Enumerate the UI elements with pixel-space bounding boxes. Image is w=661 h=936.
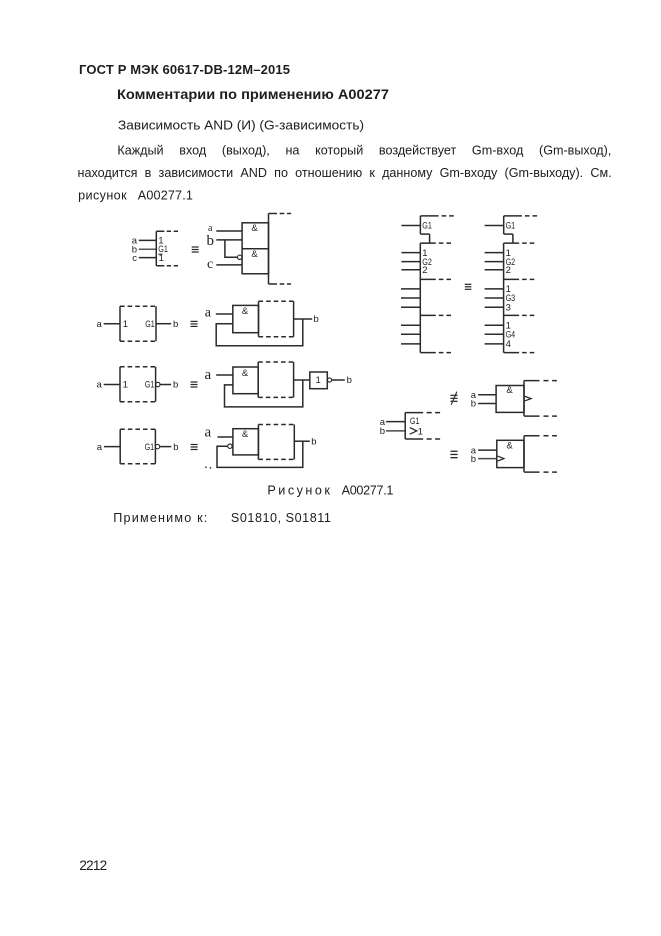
- label c serif (row1 right): [207, 257, 213, 272]
- svg-text:&: &: [242, 306, 249, 317]
- svg-text:b: b: [173, 319, 178, 330]
- wire output b (row3 right): [332, 379, 345, 381]
- pin label G1 (row2 left): [145, 319, 155, 330]
- svg-text:b: b: [173, 442, 178, 453]
- label ampersand (row4 right): [242, 429, 249, 440]
- wire input c (row1 left): [139, 257, 157, 259]
- feedback wire (row2 right): [216, 319, 303, 346]
- pin label 1 (row2 left): [123, 319, 128, 330]
- svg-text:1: 1: [123, 319, 128, 330]
- svg-text:a: a: [97, 319, 103, 330]
- wire input b (row1 left): [139, 248, 157, 250]
- group2 labels 1 G3 3 (tall right): [506, 284, 516, 313]
- label 1 inverter (row3 right): [316, 375, 321, 386]
- label b serif (row1 right): [207, 233, 215, 249]
- AND gate box (br bottom): [497, 440, 524, 467]
- box outline (row3 left): [120, 367, 156, 402]
- svg-text:1: 1: [123, 380, 128, 391]
- svg-text:G1: G1: [422, 221, 432, 232]
- pin label G1 (br left): [410, 416, 420, 427]
- AND gate box (row2 right): [233, 305, 259, 332]
- svg-text:b: b: [207, 233, 215, 249]
- common control block G1 outline (tall left): [420, 216, 455, 243]
- svg-text:&: &: [506, 440, 513, 451]
- equivalence sign (row2): [191, 321, 198, 327]
- group2 wires (tall right): [485, 289, 504, 307]
- negation bubble output (row4 left): [155, 444, 159, 448]
- continuation box dashed (br top): [524, 381, 558, 417]
- svg-text:находится в зависимости AND по: находится в зависимости AND по отношению…: [78, 166, 612, 180]
- AND gate box (row4 right): [233, 429, 259, 455]
- label a (row3 left): [97, 380, 103, 391]
- svg-text:&: &: [251, 223, 258, 234]
- group2 wires (tall left): [401, 289, 420, 307]
- svg-text:b: b: [380, 426, 385, 437]
- svg-text:S01810, S01811: S01810, S01811: [231, 511, 331, 525]
- continuation box dashed (br bottom): [524, 436, 558, 472]
- pin label 1 (row1 left): [158, 236, 163, 247]
- svg-text:Каждый вход (выход), на которы: Каждый вход (выход), на который воздейст…: [117, 143, 611, 157]
- pin label G1 (row4 left): [145, 442, 155, 453]
- svg-text:Комментарии по применению А002: Комментарии по применению А00277: [117, 87, 389, 102]
- wire output b (row2 right): [294, 318, 313, 320]
- svg-text:2212: 2212: [79, 858, 107, 873]
- non-equivalence sign: [450, 392, 457, 405]
- wire output b (row4 left): [160, 446, 172, 448]
- label ampersand top cell (row1 right): [251, 223, 258, 234]
- svg-text:b: b: [173, 380, 178, 391]
- wire b (row1 right): [216, 239, 242, 241]
- group3 wires (tall right): [485, 325, 504, 344]
- label b (br top): [471, 399, 476, 410]
- wire G1 input (tall right): [485, 225, 504, 227]
- label a serif (row1 right): [208, 223, 213, 234]
- wire input a (row3 left): [104, 384, 120, 386]
- label ampersand bottom cell (row1 right): [251, 249, 258, 260]
- equivalence sign (row4): [191, 444, 198, 450]
- label a serif (row4 right): [205, 424, 212, 440]
- label a serif (row3 right): [205, 367, 212, 383]
- group3 labels 1 G4 4 (tall right): [506, 320, 516, 350]
- label a (br top): [471, 390, 477, 401]
- svg-text:3: 3: [506, 302, 511, 313]
- pin label G1 (row3 left): [145, 380, 155, 391]
- svg-text:ГОСТ Р МЭК 60617-DB-12M–2015: ГОСТ Р МЭК 60617-DB-12M–2015: [79, 62, 290, 77]
- continuation box dashed (row4 right): [258, 425, 294, 460]
- negation bubble output (row3 left): [156, 382, 160, 386]
- label ampersand (br bottom): [506, 440, 513, 451]
- wire output b (row3 left): [160, 384, 171, 386]
- svg-text:G1: G1: [145, 319, 155, 330]
- feedback wire into negated input (row4 right): [217, 441, 303, 467]
- label a (row1 left): [132, 236, 138, 247]
- label b (row1 left): [132, 244, 137, 255]
- pin label G1 (row1 left): [158, 244, 168, 255]
- feedback wire (row3 right): [225, 380, 303, 407]
- continuation box dashed (row2 right): [259, 301, 294, 337]
- wire G1 input (tall left): [401, 225, 420, 227]
- wire input b (br bottom): [478, 458, 497, 460]
- svg-text:b: b: [311, 436, 316, 447]
- label a serif (row2 right): [205, 306, 212, 321]
- AND gate box (row3 right): [233, 367, 258, 394]
- wire input b (br top): [478, 403, 496, 405]
- svg-text:G1: G1: [506, 221, 516, 232]
- dynamic output symbol (br top): [525, 396, 531, 400]
- svg-text:1: 1: [316, 375, 321, 386]
- continuation box dashed (row3 right): [258, 362, 293, 397]
- svg-text:1: 1: [418, 426, 423, 437]
- group1 labels 1 G2 2 (tall left): [422, 248, 432, 276]
- AND gate box (br top): [496, 386, 524, 413]
- wire a (row1 right): [216, 230, 242, 232]
- label b (row2 left): [173, 319, 178, 330]
- wire input a (row4 left): [104, 446, 120, 448]
- svg-text:a: a: [205, 424, 212, 440]
- label a (row2 left): [97, 319, 103, 330]
- svg-text:c: c: [132, 253, 137, 264]
- array outline (tall right): [504, 243, 539, 353]
- wire input a (row1 left): [139, 239, 157, 241]
- svg-text:А00277.1: А00277.1: [342, 483, 394, 497]
- svg-text:a: a: [205, 306, 212, 321]
- svg-text:b: b: [471, 399, 476, 410]
- stray dots (row4 right): [205, 466, 211, 468]
- label G1 (tall right): [506, 221, 516, 232]
- pin label 1 after dynamic (br left): [418, 426, 423, 437]
- dynamic input symbol (br bottom): [498, 456, 504, 461]
- label b (br left): [380, 426, 385, 437]
- label ampersand (row2 right): [242, 306, 249, 317]
- label ampersand (br top): [506, 385, 513, 396]
- box outline (row4 left): [120, 429, 155, 464]
- wire c (row1 right): [216, 264, 242, 266]
- svg-text:a: a: [97, 380, 103, 391]
- svg-text:рисунокА00277.1: рисунокА00277.1: [78, 188, 193, 202]
- svg-text:G1: G1: [145, 380, 155, 391]
- svg-text:b: b: [471, 454, 476, 465]
- group1 labels 1 G2 2 (tall right): [506, 248, 516, 276]
- svg-text:G1: G1: [145, 442, 155, 453]
- svg-text:b: b: [314, 314, 319, 325]
- label G1 (tall left): [422, 221, 432, 232]
- wire b branch to negated input (row1 right): [225, 240, 237, 257]
- inverter box 1 (row3 right): [310, 372, 328, 389]
- equivalence sign (row3): [191, 381, 198, 387]
- continuation box dashed (row1 right): [269, 214, 292, 285]
- svg-text:4: 4: [506, 339, 511, 350]
- dynamic input symbol (br left): [410, 428, 417, 435]
- label b (row4 left): [173, 442, 178, 453]
- negation bubble (row1 right): [238, 255, 242, 259]
- box outline U1 common control block (row1 left): [156, 231, 178, 265]
- equivalence sign (br bottom): [450, 451, 457, 459]
- svg-text:Рисунок: Рисунок: [267, 483, 330, 497]
- svg-text:2: 2: [422, 265, 427, 276]
- svg-text:a: a: [97, 442, 103, 453]
- wire to inverter (row3 right): [294, 379, 310, 381]
- svg-text:&: &: [506, 385, 513, 396]
- group3 wires (tall left): [401, 325, 420, 344]
- wire input b (br left): [386, 430, 405, 432]
- box outline (row2 left): [120, 306, 156, 341]
- svg-text:&: &: [242, 429, 249, 440]
- label b (br bottom): [471, 454, 476, 465]
- equivalence sign (row1): [192, 246, 199, 252]
- svg-text:&: &: [251, 249, 258, 260]
- svg-text:c: c: [207, 257, 213, 272]
- AND gate pair outline (row1 right): [242, 223, 268, 274]
- wire input a (row2 left): [104, 323, 120, 325]
- group1 wires (tall left): [401, 253, 420, 270]
- svg-text:2: 2: [506, 265, 511, 276]
- wire a (row3 right): [216, 374, 233, 376]
- box outline (br left): [405, 413, 440, 439]
- label b (row3 left): [173, 380, 178, 391]
- common control block G1 outline (tall right): [504, 216, 539, 243]
- svg-text:&: &: [242, 368, 249, 379]
- label a (row4 left): [97, 442, 103, 453]
- label b (row3 right): [347, 375, 352, 386]
- wire output b (row4 right): [294, 440, 310, 442]
- negation bubble (row3 right): [327, 378, 331, 382]
- wire output b (row2 left): [156, 323, 171, 325]
- wire a (row4 right): [218, 436, 233, 438]
- wire input a (br left): [386, 421, 405, 423]
- svg-text:b: b: [347, 375, 352, 386]
- pin label 1 (row3 left): [123, 380, 128, 391]
- label b (row4 right): [311, 436, 316, 447]
- svg-text:a: a: [205, 367, 212, 383]
- wire input a (br top): [478, 394, 496, 396]
- negation bubble input (row4 right): [228, 444, 232, 448]
- pin label 1-bar (row1 left): [158, 253, 162, 255]
- label a (br left): [380, 417, 386, 428]
- wire input a (br bottom): [478, 449, 497, 451]
- equivalence sign (tall pair): [465, 284, 472, 290]
- array outline (tall left): [420, 243, 455, 353]
- label c (row1 left): [132, 253, 137, 264]
- group1 wires (tall right): [485, 253, 504, 270]
- label b (row2 right): [314, 314, 319, 325]
- svg-text:1: 1: [159, 253, 164, 264]
- wire a (row2 right): [216, 313, 233, 315]
- svg-text:Применимо к:: Применимо к:: [113, 511, 207, 525]
- svg-text:Зависимость AND (И) (G-зависим: Зависимость AND (И) (G-зависимость): [118, 119, 364, 133]
- label a (br bottom): [471, 445, 477, 456]
- label ampersand (row3 right): [242, 368, 249, 379]
